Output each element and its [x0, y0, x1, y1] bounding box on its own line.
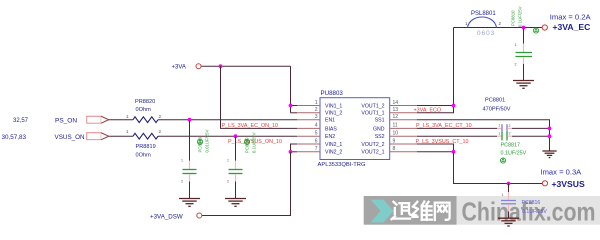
svg-text:2: 2 [509, 124, 511, 128]
svg-text:1: 1 [315, 100, 318, 106]
wire +3VA corner down to VIN1 pins [291, 66, 298, 113]
op-amp/regulator U1 PU8803 APL3533QBI-TRG box [318, 90, 390, 168]
svg-text:+3VA_ECO: +3VA_ECO [414, 108, 442, 114]
wire VIN2_1 pin6 down to VIN2_2 pin7 [291, 144, 298, 152]
svg-text:VSUS_ON: VSUS_ON [55, 134, 86, 141]
svg-text:+3VA_EC: +3VA_EC [553, 22, 591, 32]
svg-text:SS2: SS2 [375, 134, 385, 140]
svg-text:1: 1 [126, 114, 129, 119]
svg-text:PSL8801: PSL8801 [471, 11, 496, 17]
svg-text:+3VA: +3VA [172, 65, 186, 71]
pin 13 VOUT1_1 [361, 107, 417, 117]
port VSUS_ON [2, 133, 109, 141]
watermark CJK character xun [392, 202, 412, 220]
svg-text:0.1UF/25V: 0.1UF/25V [518, 6, 523, 27]
svg-text:0603: 0603 [477, 30, 495, 37]
capacitor PC8819 0.1UF/25V [227, 132, 257, 198]
watermark chevron logo [371, 200, 394, 223]
svg-text:PS_ON: PS_ON [55, 117, 77, 124]
svg-text:APL3533QBI-TRG: APL3533QBI-TRG [318, 162, 366, 168]
node junction PC8816b tap [507, 182, 511, 186]
wire +3VA vertical drop to BIAS pin 4 [221, 66, 298, 128]
svg-text:5: 5 [315, 131, 318, 137]
capacitor PC8816 0.1UF/25V (bottom) [501, 184, 547, 219]
ground below PC8816 [179, 199, 200, 207]
svg-text:10: 10 [393, 131, 399, 137]
wire bead row to +3VA_EC [454, 27, 543, 29]
wire VOUT2_1 pin8 [417, 151, 454, 153]
wire +3VSUS run [454, 152, 543, 184]
svg-text:30,57,83: 30,57,83 [2, 134, 27, 141]
resistor PR8819 0Ohm [126, 129, 162, 158]
svg-text:PC8816: PC8816 [522, 200, 541, 206]
svg-text:VOUT2_2: VOUT2_2 [361, 142, 384, 148]
wire VOUT1_2 pin14 to bead riser [417, 105, 454, 107]
svg-text:1: 1 [181, 159, 183, 163]
pin 3 EN1 [297, 114, 335, 124]
node junction on +3VA rail [219, 64, 223, 68]
svg-text:0.1UF/25V: 0.1UF/25V [522, 209, 547, 215]
node junction VOUT2 [452, 150, 456, 154]
svg-text:14: 14 [393, 100, 399, 106]
svg-text:GND: GND [373, 126, 385, 132]
port +3VSUS with Imax note [541, 168, 585, 189]
svg-text:VOUT2_1: VOUT2_1 [361, 150, 384, 156]
port +3VA_DSW [150, 213, 202, 220]
svg-text:2: 2 [315, 107, 318, 113]
port PS_ON [13, 116, 109, 124]
svg-text:1: 1 [227, 159, 229, 163]
svg-text:4: 4 [315, 123, 318, 129]
pin 11 GND [373, 123, 417, 133]
node junction PC8801 / ground column [548, 126, 552, 130]
wire VOUT2_2 pin9 corner down [417, 144, 454, 152]
ground below PC8816 bottom [498, 218, 519, 226]
capacitor PC8801 470PF/50V [483, 97, 513, 132]
pin 4 BIAS [297, 123, 337, 133]
svg-text:Imax = 0.2A: Imax = 0.2A [550, 12, 592, 21]
pin 9 VOUT2_2 [361, 138, 417, 148]
svg-text:1: 1 [126, 129, 129, 134]
svg-text:PC8801: PC8801 [485, 97, 505, 103]
node junction +3VA / VIN1_1 [289, 104, 293, 108]
svg-text:BIAS: BIAS [325, 126, 337, 132]
capacitor PC8810 0.1UF/25V [511, 6, 539, 80]
svg-text:7: 7 [315, 146, 318, 152]
wire GND pin11 through PC8801 [417, 127, 550, 129]
wire SS2 pin10 through PC8817 [417, 135, 550, 137]
watermark CJK character wei [413, 202, 432, 220]
svg-text:0.01UF/25V: 0.01UF/25V [205, 129, 210, 152]
svg-text:EN1: EN1 [325, 118, 335, 124]
svg-text:3: 3 [315, 114, 318, 120]
svg-text:Imax = 0.3A: Imax = 0.3A [541, 168, 583, 177]
ground below PC8819 [225, 199, 246, 207]
svg-text:VIN2_2: VIN2_2 [325, 150, 342, 156]
svg-text:SS1: SS1 [375, 118, 385, 124]
node junction PC8817 / ground column [548, 134, 552, 138]
svg-text:1: 1 [498, 124, 500, 128]
svg-text:PC8817: PC8817 [501, 143, 520, 149]
pin 6 VIN2_1 [297, 138, 342, 148]
svg-text:13: 13 [393, 107, 399, 113]
svg-text:0.1UF/25V: 0.1UF/25V [501, 151, 527, 157]
svg-text:+3VSUS: +3VSUS [552, 179, 585, 189]
svg-text:P_LS_3VA_EC_CT_10: P_LS_3VA_EC_CT_10 [416, 123, 472, 129]
svg-text:EN2: EN2 [325, 134, 335, 140]
pin 8 VOUT2_1 [361, 146, 417, 156]
resistor PR8820 0Ohm [126, 99, 162, 123]
svg-text:8: 8 [393, 146, 396, 152]
node junction PC8810 tap [522, 26, 526, 30]
pin 12 SS1 [375, 114, 417, 124]
svg-text:12: 12 [393, 114, 399, 120]
svg-text:470PF/50V: 470PF/50V [483, 107, 511, 113]
node junction PC8819 tap on EN2 wire [234, 134, 238, 138]
svg-text:2: 2 [159, 114, 162, 119]
node junction PC8816 tap on EN1 wire [188, 118, 192, 122]
pin 14 VOUT1_2 [361, 100, 417, 110]
svg-text:VIN1_2: VIN1_2 [325, 111, 342, 117]
svg-text:1: 1 [502, 193, 504, 197]
svg-text:P_LS_3VA_EC_ON_10: P_LS_3VA_EC_ON_10 [222, 123, 279, 129]
capacitor PC8816 0.01UF/25V [181, 120, 210, 199]
pin 2 VIN1_2 [297, 107, 342, 117]
svg-text:1: 1 [515, 43, 517, 47]
svg-text:6: 6 [315, 138, 318, 144]
ground below PC8810 [513, 81, 534, 89]
svg-text:PC8810: PC8810 [511, 10, 516, 26]
svg-text:2: 2 [515, 63, 517, 67]
svg-text:VOUT1_2: VOUT1_2 [361, 103, 384, 109]
svg-text:PR8819: PR8819 [136, 144, 156, 150]
inductor/bead PSL8801 0603 [465, 11, 502, 37]
svg-text:2: 2 [181, 180, 183, 184]
pin 5 EN2 [297, 131, 335, 141]
svg-text:VOUT1_1: VOUT1_1 [361, 111, 384, 117]
svg-text:0Ohm: 0Ohm [136, 152, 152, 158]
svg-text:32,57: 32,57 [13, 118, 29, 124]
svg-text:VIN1_1: VIN1_1 [325, 103, 342, 109]
port +3VA [172, 64, 202, 71]
port +3VA_EC with Imax note [542, 12, 591, 32]
svg-text:+3VA_DSW: +3VA_DSW [150, 213, 183, 220]
svg-text:VIN2_1: VIN2_1 [325, 142, 342, 148]
watermark band [457, 196, 600, 225]
svg-text:2: 2 [227, 180, 229, 184]
svg-text:0Ohm: 0Ohm [136, 107, 152, 113]
wire PS_ON to EN1 (net P_LS_3VA_EC_ON_10) [109, 119, 297, 121]
wire +3VA_DSW riser [202, 152, 291, 216]
svg-text:1: 1 [465, 21, 468, 26]
pin 7 VIN2_2 [297, 146, 342, 156]
pin 1 VIN1_1 [297, 100, 342, 110]
svg-text:1: 1 [498, 131, 500, 135]
pin 10 SS2 [375, 131, 417, 141]
svg-text:9: 9 [393, 138, 396, 144]
node junction VIN2 / +3VA_DSW [289, 150, 293, 154]
svg-text:2: 2 [499, 21, 502, 26]
svg-text:2: 2 [159, 129, 162, 134]
svg-text:11: 11 [393, 123, 398, 129]
svg-text:0.1UF/25V: 0.1UF/25V [252, 132, 257, 153]
ground right column [542, 151, 556, 158]
wire VSUS_ON to EN2 (net P_LS_3VSUS_ON_10) [109, 135, 297, 137]
wire +3VA horizontal rail [201, 65, 291, 67]
svg-text:PR8820: PR8820 [135, 99, 155, 105]
watermark CJK character wang [435, 203, 450, 220]
node junction VOUT1 [452, 104, 456, 108]
capacitor PC8817 0.1UF/25V [497, 131, 527, 163]
svg-text:PU8803: PU8803 [321, 90, 344, 97]
wire VOUT1_1 pin13 corner up to bead [417, 28, 454, 113]
wire SS1 pin12 to ground column [417, 120, 550, 151]
svg-text:2: 2 [509, 132, 511, 136]
